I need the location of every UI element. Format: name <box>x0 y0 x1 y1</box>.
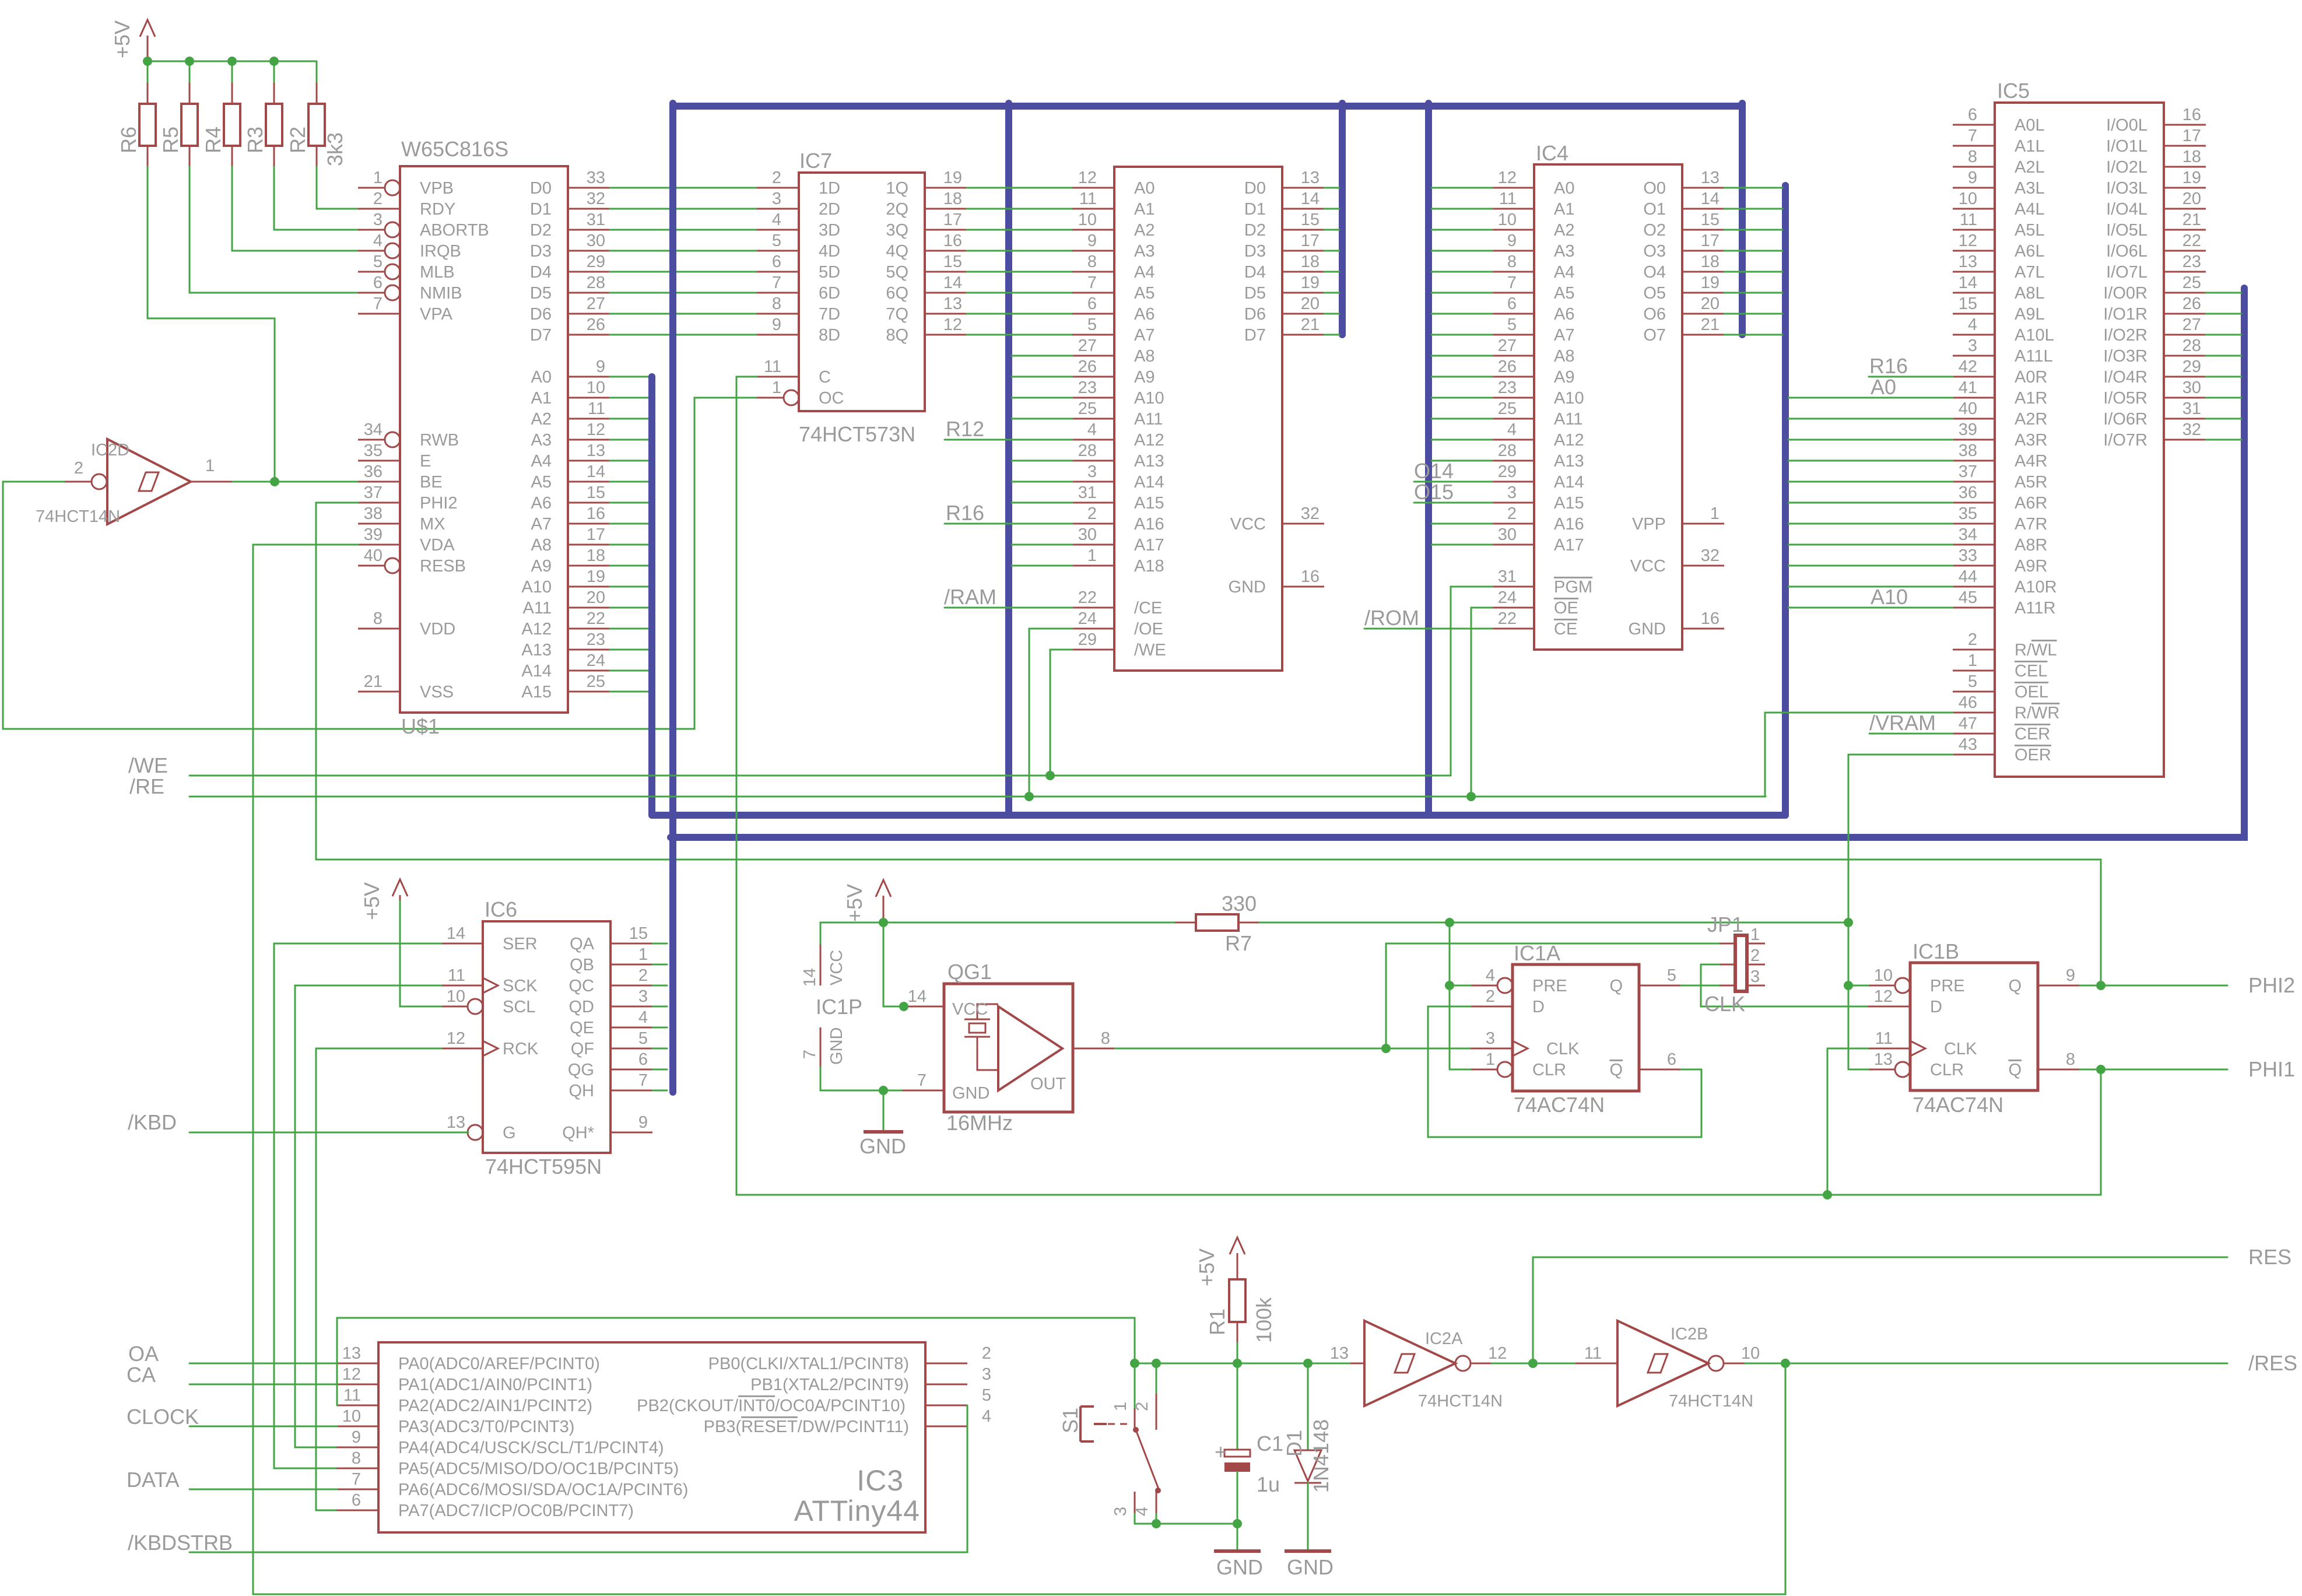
IC6 pin 4 QE <box>570 1008 652 1037</box>
RAM pin 25 A11 <box>1072 399 1163 429</box>
IC5 pin 45 A11R <box>1953 588 2055 618</box>
svg-text:I/O3L: I/O3L <box>2106 179 2147 198</box>
IC5 pin 35 A7R <box>1953 504 2047 534</box>
svg-text:CLR: CLR <box>1532 1061 1566 1079</box>
wires RAM data pins to bus <box>1324 188 1339 335</box>
bus vertical left of IC7 <box>669 103 676 1092</box>
svg-text:PRE: PRE <box>1532 977 1567 995</box>
IC5 pin 20 I/O4L <box>2106 190 2206 219</box>
svg-text:O15: O15 <box>1414 480 1454 504</box>
svg-text:CLOCK: CLOCK <box>127 1405 199 1429</box>
U$1 pin 5 MLB <box>358 252 455 282</box>
svg-text:A7L: A7L <box>2015 263 2045 282</box>
svg-text:22: 22 <box>1498 609 1517 628</box>
svg-text:10: 10 <box>1874 966 1893 985</box>
svg-text:CE: CE <box>1554 620 1577 639</box>
svg-text:CLK: CLK <box>1944 1040 1977 1058</box>
junction dots on +5V rail <box>143 57 279 66</box>
svg-text:IC3: IC3 <box>857 1464 904 1497</box>
svg-text:A0: A0 <box>1871 375 1896 399</box>
svg-text:A11: A11 <box>1554 410 1582 429</box>
IC5 pin 2 R/WL <box>1953 630 2057 660</box>
svg-text:D1: D1 <box>530 200 552 219</box>
svg-text:30: 30 <box>1498 525 1517 544</box>
svg-text:A15: A15 <box>521 683 552 701</box>
svg-text:5: 5 <box>982 1386 991 1405</box>
svg-text:8: 8 <box>373 609 383 628</box>
svg-text:SCK: SCK <box>503 977 538 995</box>
U$1 pin 9 A0 <box>531 357 610 387</box>
svg-text:21: 21 <box>1301 315 1320 334</box>
jumper JP1 <box>1707 913 1765 991</box>
svg-text:74AC74N: 74AC74N <box>1913 1093 2003 1117</box>
svg-text:14: 14 <box>1701 190 1720 208</box>
svg-text:QG1: QG1 <box>948 960 992 984</box>
junction dots reset node <box>1130 1359 1313 1368</box>
svg-text:2: 2 <box>1750 946 1760 965</box>
svg-text:D6: D6 <box>530 305 552 324</box>
junction RES riser <box>1528 1359 1538 1368</box>
svg-text:25: 25 <box>1078 399 1097 418</box>
IC IC5 dual-port RAM <box>1995 79 2164 777</box>
RAM pin 5 A7 <box>1072 315 1154 345</box>
IC3 pin 10 PA3 <box>336 1407 574 1436</box>
svg-text:32: 32 <box>587 190 605 208</box>
svg-text:A9R: A9R <box>2015 557 2047 576</box>
wires IC5 right-address pins from bus <box>1788 419 1953 587</box>
svg-text:VPA: VPA <box>420 305 453 324</box>
oscillator QG1 16MHz <box>944 960 1073 1135</box>
svg-text:12: 12 <box>1078 169 1097 187</box>
svg-text:D2: D2 <box>1244 221 1266 240</box>
svg-text:A9: A9 <box>1554 368 1574 387</box>
svg-text:A8R: A8R <box>2015 536 2047 555</box>
ground symbol GND near QG1 <box>859 1132 906 1158</box>
svg-text:40: 40 <box>1959 399 1977 418</box>
svg-text:R2: R2 <box>286 127 310 153</box>
IC5 pin 43 OER <box>1953 735 2051 764</box>
svg-text:36: 36 <box>1959 483 1977 502</box>
IC4 pin 32 VCC <box>1630 546 1724 576</box>
svg-text:A7: A7 <box>1554 326 1574 345</box>
IC5 pin 46 R/WR <box>1953 693 2059 722</box>
resistor R3 3k3 pull-up <box>243 83 282 167</box>
IC3 pin 11 PA2 <box>336 1386 592 1415</box>
IC4 pin 16 GND <box>1629 609 1724 639</box>
svg-text:32: 32 <box>1301 504 1320 523</box>
IC6 pin 9 QH* <box>562 1113 652 1142</box>
wire R4 to IRQB <box>232 167 358 251</box>
svg-text:A14: A14 <box>521 662 552 681</box>
svg-text:32: 32 <box>1701 546 1720 565</box>
svg-text:A0: A0 <box>1554 179 1574 198</box>
svg-text:8: 8 <box>2066 1050 2075 1069</box>
svg-text:QE: QE <box>570 1019 594 1037</box>
svg-text:6: 6 <box>352 1491 361 1510</box>
svg-text:G: G <box>503 1124 516 1142</box>
RAM pin 16 GND <box>1229 567 1324 597</box>
svg-text:7: 7 <box>1968 127 1977 145</box>
IC IC3 ATTiny44 <box>378 1342 925 1532</box>
svg-text:PHI1: PHI1 <box>2248 1057 2295 1081</box>
svg-text:13: 13 <box>1701 169 1720 187</box>
svg-text:14: 14 <box>801 968 819 987</box>
IC1A pin 2 D <box>1471 987 1545 1016</box>
svg-text:37: 37 <box>1959 462 1977 481</box>
svg-text:28: 28 <box>1078 441 1097 460</box>
svg-text:39: 39 <box>364 525 383 544</box>
IC3 pin 9 PA4 <box>336 1428 664 1457</box>
svg-text:MX: MX <box>420 515 445 534</box>
svg-text:12: 12 <box>1488 1344 1507 1363</box>
svg-text:1: 1 <box>373 169 383 187</box>
svg-text:VDD: VDD <box>420 620 455 639</box>
svg-text:3k3: 3k3 <box>323 132 347 166</box>
wire IC6 RCK to IC3 PA7 <box>316 1048 441 1510</box>
IC4 pin 26 A9 <box>1492 357 1574 387</box>
IC5 pin 29 I/O4R <box>2103 357 2206 387</box>
RAM pin 13 D0 <box>1244 169 1324 198</box>
svg-text:IC2A: IC2A <box>1425 1330 1463 1348</box>
svg-text:D1: D1 <box>1244 200 1266 219</box>
IC5 pin 7 A1L <box>1953 127 2045 156</box>
RAM pin 27 A8 <box>1072 336 1154 366</box>
svg-text:VCC: VCC <box>827 950 846 985</box>
svg-text:13: 13 <box>447 1113 465 1132</box>
junction /WE-RAM <box>1045 771 1055 780</box>
svg-text:R6: R6 <box>117 127 141 153</box>
svg-text:7: 7 <box>917 1071 927 1090</box>
IC7 pin 3 2D <box>757 190 840 219</box>
svg-text:6: 6 <box>772 252 781 271</box>
svg-text:13: 13 <box>1959 252 1977 271</box>
wire net /KBDSTRB to IC3 PB2 <box>128 1405 967 1555</box>
svg-text:+5V: +5V <box>110 20 134 58</box>
svg-text:A5L: A5L <box>2015 221 2045 240</box>
svg-text:2D: 2D <box>819 200 840 219</box>
svg-text:34: 34 <box>1959 525 1977 544</box>
svg-text:A10: A10 <box>521 578 552 597</box>
svg-text:1: 1 <box>638 945 648 964</box>
svg-text:24: 24 <box>1498 588 1517 607</box>
svg-text:O14: O14 <box>1414 459 1454 483</box>
svg-text:12: 12 <box>1959 231 1977 250</box>
svg-text:3: 3 <box>1968 336 1977 355</box>
svg-text:22: 22 <box>587 609 605 628</box>
svg-text:+5V: +5V <box>843 884 866 922</box>
wire IC1A Q to JP1 pin 3 <box>1681 985 1720 987</box>
svg-text:MLB: MLB <box>420 263 455 282</box>
svg-text:3: 3 <box>982 1365 991 1384</box>
svg-text:3: 3 <box>1087 462 1097 481</box>
svg-text:GND: GND <box>1216 1555 1263 1579</box>
svg-text:29: 29 <box>1078 630 1097 649</box>
IC6 pin 6 QG <box>568 1050 652 1079</box>
wire net /KBD to IC6 G <box>128 1110 468 1134</box>
svg-text:1: 1 <box>1087 546 1097 565</box>
svg-text:4D: 4D <box>819 242 840 261</box>
svg-text:+5V: +5V <box>1195 1248 1219 1286</box>
IC7 pin 13 7Q <box>886 294 967 324</box>
svg-text:26: 26 <box>1498 357 1517 376</box>
svg-text:A1: A1 <box>1134 200 1154 219</box>
svg-text:330: 330 <box>1222 892 1257 915</box>
svg-text:11: 11 <box>764 357 781 376</box>
IC7 pin 16 4Q <box>886 231 967 261</box>
svg-text:QA: QA <box>570 935 595 953</box>
wire R6 to BE net <box>148 167 275 482</box>
svg-text:5: 5 <box>638 1029 648 1048</box>
svg-text:A14: A14 <box>1134 473 1164 492</box>
svg-text:19: 19 <box>2182 169 2201 187</box>
svg-text:3Q: 3Q <box>886 221 908 240</box>
wire R2 to RDY <box>317 167 358 209</box>
IC3 pin 5 PB2 <box>637 1386 991 1415</box>
bus vertical left of IC5 <box>1782 185 1789 815</box>
svg-text:3: 3 <box>1486 1029 1495 1048</box>
svg-text:I/O6L: I/O6L <box>2106 242 2147 261</box>
svg-text:A4: A4 <box>1554 263 1574 282</box>
junction PHI1 <box>2096 1065 2106 1074</box>
wire IC6 SER to IC3 PA5 <box>274 943 441 1468</box>
IC5 pin 4 A10L <box>1953 315 2054 345</box>
wire /RE to RAM /OE <box>1029 629 1072 797</box>
wire net /RAM to RAM /CE <box>944 585 1072 609</box>
svg-text:2: 2 <box>1133 1402 1152 1411</box>
svg-text:25: 25 <box>1498 399 1517 418</box>
U$1 pin 14 A5 <box>531 462 610 492</box>
IC6 pin 12 RCK <box>441 1029 539 1058</box>
svg-text:15: 15 <box>629 924 648 943</box>
IC7 pin 6 5D <box>757 252 840 282</box>
svg-text:32: 32 <box>2182 420 2201 439</box>
RAM pin 24 /OE <box>1072 609 1163 639</box>
wires IC7 outputs 1Q-8Q to RAM address pins <box>967 188 1072 335</box>
svg-text:C: C <box>819 368 831 387</box>
svg-text:38: 38 <box>1959 441 1977 460</box>
IC1A pin 3 CLK <box>1471 1029 1580 1058</box>
svg-text:CLK: CLK <box>1704 992 1745 1016</box>
IC5 pin 34 A8R <box>1953 525 2047 555</box>
svg-text:R1: R1 <box>1205 1309 1229 1335</box>
power +5V near IC1P <box>843 880 891 922</box>
svg-text:GND: GND <box>1629 620 1666 639</box>
svg-text:D: D <box>1532 998 1545 1016</box>
svg-text:2: 2 <box>74 459 83 478</box>
svg-text:A17: A17 <box>1134 536 1164 555</box>
svg-text:13: 13 <box>1301 169 1320 187</box>
RAM pin 22 /CE <box>1072 588 1162 618</box>
bus bottom horizontal with right riser to IC5 I/O <box>671 288 2244 837</box>
svg-text:A10L: A10L <box>2015 326 2054 345</box>
svg-text:A6: A6 <box>531 494 552 513</box>
svg-text:R16: R16 <box>946 501 984 525</box>
svg-text:/OE: /OE <box>1134 620 1163 639</box>
svg-text:23: 23 <box>587 630 605 649</box>
svg-text:A0: A0 <box>531 368 552 387</box>
svg-text:VCC: VCC <box>952 1000 988 1019</box>
svg-text:15: 15 <box>1959 294 1977 313</box>
svg-text:16: 16 <box>2182 106 2201 124</box>
IC3 pin 4 PB3 <box>704 1407 991 1436</box>
IC5 pin 30 I/O5R <box>2103 378 2206 408</box>
svg-text:2: 2 <box>1486 987 1495 1006</box>
RAM pin 6 A6 <box>1072 294 1154 324</box>
svg-text:2Q: 2Q <box>886 200 908 219</box>
svg-text:9: 9 <box>1507 231 1517 250</box>
svg-text:4: 4 <box>1486 966 1495 985</box>
svg-text:PA3(ADC3/T0/PCINT3): PA3(ADC3/T0/PCINT3) <box>398 1418 574 1436</box>
svg-text:Q: Q <box>1609 977 1623 995</box>
svg-text:A4: A4 <box>1134 263 1154 282</box>
svg-text:18: 18 <box>943 190 962 208</box>
QG1 internal crystal and buffer <box>952 1000 1066 1103</box>
U$1 pin 4 IRQB <box>358 231 461 261</box>
svg-text:21: 21 <box>364 672 383 691</box>
svg-text:10: 10 <box>447 987 465 1006</box>
svg-text:19: 19 <box>587 567 605 586</box>
capacitor C1 1u <box>1215 1363 1283 1524</box>
U$1 pin 2 RDY <box>358 190 455 219</box>
svg-text:27: 27 <box>2182 315 2201 334</box>
svg-text:26: 26 <box>587 315 605 334</box>
RAM pin 14 D1 <box>1244 190 1324 219</box>
IC1A pin 4 PRE <box>1471 966 1567 995</box>
svg-text:A6: A6 <box>1134 305 1154 324</box>
IC1B pin 12 D <box>1868 987 1942 1016</box>
svg-text:6: 6 <box>1087 294 1097 313</box>
wire /WE to IC4 PGM <box>1451 587 1492 776</box>
wire JP1 pin 2 to CLK net and IC1B D <box>1701 964 1868 1006</box>
wire PHI2 from CPU pin 37 to IC1B Q <box>316 503 2101 985</box>
svg-text:1: 1 <box>1486 1050 1495 1069</box>
wire R7 net to IC1A PRE and CLR <box>1450 922 1471 1069</box>
svg-text:A11L: A11L <box>2015 347 2053 366</box>
IC IC7 74HCT573N latch <box>799 149 925 446</box>
svg-text:19: 19 <box>1301 273 1320 292</box>
svg-text:OA: OA <box>128 1342 159 1366</box>
wire net R16 to IC5 A0R <box>1869 354 1953 378</box>
wire IC1B Qbar to PHI1 label <box>2080 1057 2295 1081</box>
svg-text:A13: A13 <box>521 641 552 660</box>
IC1A pin 6 Qbar <box>1609 1050 1681 1079</box>
svg-text:GND: GND <box>952 1084 989 1103</box>
QG1 pin 8 OUT <box>1073 1029 1115 1048</box>
svg-text:IC1A: IC1A <box>1514 941 1560 965</box>
svg-text:O4: O4 <box>1643 263 1666 282</box>
svg-text:7: 7 <box>638 1071 648 1090</box>
svg-text:4: 4 <box>638 1008 648 1027</box>
svg-text:18: 18 <box>1701 252 1720 271</box>
junction GND node <box>879 1086 888 1095</box>
junction /RE-RAM <box>1024 792 1034 801</box>
svg-text:QB: QB <box>570 956 594 974</box>
U$1 pin 20 A11 <box>523 588 610 618</box>
svg-text:21: 21 <box>1701 315 1720 334</box>
svg-text:13: 13 <box>587 441 605 460</box>
inverter IC2B 74HCT14N <box>1575 1321 1760 1411</box>
QG1 pin 14 VCC <box>902 987 944 1006</box>
svg-text:CER: CER <box>2015 725 2050 743</box>
svg-text:4: 4 <box>1507 420 1517 439</box>
IC3 labels <box>794 1464 920 1527</box>
wire net /RE <box>129 774 1766 798</box>
svg-text:11: 11 <box>1960 211 1977 229</box>
svg-text:36: 36 <box>364 462 383 481</box>
IC7 pin 1 OC <box>757 378 844 408</box>
IC4 pin 2 A16 <box>1492 504 1584 534</box>
svg-text:24: 24 <box>587 651 605 670</box>
svg-text:A15: A15 <box>1554 494 1584 513</box>
wire net RES from reset node <box>1533 1245 2292 1363</box>
switch S1 reset button <box>1058 1363 1237 1524</box>
wire IC1P GND to QG1 GND and ground <box>820 1067 901 1130</box>
RAM pin 21 D7 <box>1244 315 1324 345</box>
svg-text:I/O0R: I/O0R <box>2103 284 2147 303</box>
svg-text:CA: CA <box>127 1363 156 1387</box>
svg-text:8: 8 <box>352 1449 361 1468</box>
wire /RE to IC4 OE <box>1471 608 1492 797</box>
svg-text:27: 27 <box>1078 336 1097 355</box>
IC4 pin 20 O6 <box>1643 294 1724 324</box>
wire R3 to ABORTB <box>274 167 358 230</box>
U$1 pin 1 VPB <box>358 169 454 198</box>
IC1A pin 5 Q <box>1609 966 1681 995</box>
bus vertical CPU address <box>648 377 655 815</box>
svg-text:1: 1 <box>1750 925 1760 944</box>
U$1 pin 34 RWB <box>358 420 459 450</box>
svg-text:I/O7L: I/O7L <box>2106 263 2147 282</box>
IC4 pin 9 A3 <box>1492 231 1574 261</box>
svg-text:14: 14 <box>943 273 962 292</box>
svg-text:PA7(ADC7/ICP/OC0B/PCINT7): PA7(ADC7/ICP/OC0B/PCINT7) <box>398 1502 634 1520</box>
svg-text:41: 41 <box>1959 378 1977 397</box>
U$1 pin 37 PHI2 <box>358 483 457 513</box>
svg-text:40: 40 <box>364 546 383 565</box>
svg-text:/WE: /WE <box>128 753 168 777</box>
IC3 pin 8 PA5 <box>336 1449 679 1478</box>
svg-text:A11R: A11R <box>2015 599 2055 618</box>
svg-text:23: 23 <box>2182 252 2201 271</box>
svg-text:31: 31 <box>2182 399 2201 418</box>
svg-text:A8: A8 <box>1134 347 1154 366</box>
IC4 pin 13 O0 <box>1643 169 1724 198</box>
svg-text:4: 4 <box>1968 315 1977 334</box>
svg-text:1: 1 <box>1968 651 1977 670</box>
svg-text:I/O3R: I/O3R <box>2103 347 2147 366</box>
IC4 pin 8 A4 <box>1492 252 1574 282</box>
svg-text:14: 14 <box>587 462 605 481</box>
U$1 pin 40 RESB <box>358 546 466 576</box>
svg-text:A6: A6 <box>1554 305 1574 324</box>
svg-text:15: 15 <box>1301 211 1320 229</box>
svg-text:16: 16 <box>1301 567 1320 586</box>
svg-text:/ROM: /ROM <box>1364 606 1419 630</box>
IC6 pin 15 QA <box>570 924 652 953</box>
svg-text:1: 1 <box>1111 1402 1130 1411</box>
svg-text:14: 14 <box>447 924 465 943</box>
wire QG1 OUT to IC1A CLK <box>1115 1048 1471 1050</box>
svg-text:3: 3 <box>1750 967 1760 986</box>
IC5 pin 15 A9L <box>1953 294 2045 324</box>
svg-text:33: 33 <box>1959 546 1977 565</box>
IC4 pin 5 A7 <box>1492 315 1574 345</box>
svg-text:19: 19 <box>1701 273 1720 292</box>
svg-text:I/O2R: I/O2R <box>2103 326 2147 345</box>
RAM pin 20 D6 <box>1244 294 1324 324</box>
svg-text:E: E <box>420 452 431 471</box>
IC7 pin 2 1D <box>757 169 840 198</box>
